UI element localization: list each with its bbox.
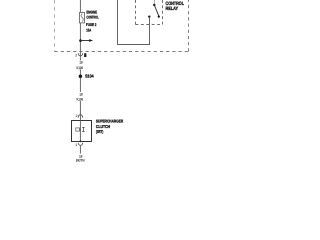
fuse F: ENGINE CONTROL FUSE 2 15A [80,13,85,23]
connector at PDC exit: black connector ID box [84,53,86,57]
connector at PDC exit: half-circle [78,53,83,56]
wire label: 18 K106 [76,60,86,70]
svg-text:18: 18 [79,92,82,96]
connector at clutch: half-circle (open down) [78,115,83,118]
svg-text:BK/TN: BK/TN [76,158,85,162]
svg-text:15A: 15A [86,28,91,33]
node: wire exit dot at clutch box bottom [80,141,82,143]
power distribution center dashed box: left edge [54,0,56,52]
relay contact: output terminal dot [148,16,150,18]
clutch component label: SUPERCHARGER CLUTCH (SRT) [96,119,123,134]
svg-text:2: 2 [75,54,77,58]
relay contact: movable arm [154,5,158,16]
wire: connector down to S104 [79,57,81,74]
clutch coil symbol [76,128,81,131]
svg-text:FUSE 2: FUSE 2 [86,22,97,27]
svg-text:K106: K106 [77,97,84,101]
power distribution center dashed box: right edge [188,0,190,52]
svg-text:1: 1 [75,143,77,147]
relay label: CONTROL RELAY [166,1,185,12]
wire label: 18 K106 [76,92,86,102]
wire: S104 down to supercharger clutch [79,78,81,121]
fuse value label: ENGINE CONTROL FUSE 2 15A [86,9,99,32]
wire: fuse output down to connector [79,23,81,58]
svg-text:(SRT): (SRT) [96,129,104,134]
wire: branch arrow to other circuit [81,39,94,42]
power distribution center dashed box: bottom edge [55,51,190,53]
svg-text:18: 18 [79,61,82,65]
connector below clutch: half-circle (open up) [78,143,83,146]
svg-text:CONTROL: CONTROL [86,14,99,19]
supercharger clutch box [72,121,92,142]
relay dashed box (control relay, cut off at top) [136,0,163,25]
wire: clutch ground lead [79,146,81,154]
wire label: 18 BK/TN [76,154,85,162]
svg-text:S104: S104 [85,73,94,78]
node: junction dot on fuse output [79,39,82,42]
svg-text:RELAY: RELAY [166,6,179,12]
wire: relay output down, left, and up to top of page [118,0,150,45]
relay contact: top terminal dot [153,4,155,6]
wire: battery feed into fuse from top [79,0,81,13]
splice S104 dot [79,75,83,79]
relay contact: arm end dot [158,16,160,18]
svg-text:CONTROL: CONTROL [166,1,185,7]
clutch plate symbol [82,127,84,131]
svg-text:K106: K106 [77,66,84,70]
wire inside clutch box [79,121,81,142]
relay contact: stub above top terminal [154,0,156,4]
svg-text:2: 2 [76,114,78,118]
